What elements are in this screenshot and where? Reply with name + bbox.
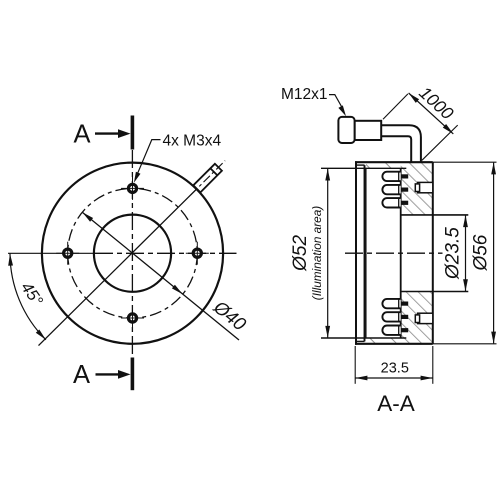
front plate inner line: [364, 165, 366, 341]
bolt hole left: [64, 249, 72, 257]
width 23.5 dim line: [355, 377, 433, 379]
LED bottom 2: [382, 312, 400, 321]
section mark bottom thick line: [131, 358, 135, 391]
section arrow bottom: [96, 373, 122, 375]
section mark top thick line: [131, 116, 135, 150]
svg-text:4x M3x4: 4x M3x4: [163, 132, 222, 149]
dia23.5 dim line: [465, 215, 467, 291]
arrow upper-left of dia40: [82, 212, 93, 222]
width 23.5 ext lines: [354, 346, 356, 384]
hatch strip bottom: [366, 338, 401, 344]
hatch strip top: [366, 162, 401, 168]
LED bottom 3: [382, 326, 400, 335]
svg-text:A: A: [73, 121, 90, 149]
svg-text:M12x1: M12x1: [281, 86, 328, 103]
tab end cap line: [210, 168, 217, 175]
bolt hole bottom: [128, 314, 136, 322]
LED bottom 1: [382, 299, 400, 308]
cable length dim line: [409, 93, 454, 134]
hatch block top: [401, 162, 433, 215]
svg-text:A: A: [73, 361, 90, 389]
cable length ext line 1: [383, 94, 408, 119]
label M12x1 leader: [329, 95, 343, 110]
illumination bottom line: [321, 337, 406, 339]
dia56 dim line: [493, 163, 495, 344]
section arrow top: [95, 132, 121, 134]
vertical centerline: [131, 150, 133, 357]
tab centerline dash-dot: [191, 161, 225, 195]
45deg diagonal dimension line (lower-left to upper-right): [39, 189, 197, 346]
svg-text:23.5: 23.5: [381, 360, 409, 376]
bore bottom line + ext: [401, 291, 469, 293]
section body bottom edge + ext: [355, 343, 433, 345]
window inner edge: [365, 168, 367, 338]
hatch block bottom: [401, 292, 433, 344]
bolt hole right: [193, 249, 201, 257]
connector recess bottom: [418, 313, 433, 323]
front view bore circle: [94, 215, 171, 292]
M12 connector body: [355, 121, 382, 140]
label 4x M3x4 leader: [136, 140, 160, 177]
arc arrow bottom: [36, 330, 46, 340]
svg-text:A-A: A-A: [377, 391, 415, 416]
dia52 dim line: [327, 169, 329, 338]
front view outer circle: [42, 163, 223, 344]
front plate step bottom: [357, 340, 365, 342]
front plate step top: [357, 164, 365, 166]
LED top 2: [382, 185, 400, 194]
section centerline: [345, 252, 443, 254]
arrow lower-right of dia40: [172, 285, 183, 295]
diameter 40 dimension line: [82, 212, 239, 340]
LED top 3: [382, 198, 400, 207]
45 degree angle arc: [10, 253, 46, 340]
svg-text:Ø52: Ø52: [290, 235, 311, 272]
front plate outer line: [355, 161, 357, 344]
connector recess top: [418, 182, 433, 192]
LED top 1: [382, 172, 400, 181]
connector tab on front view: [193, 164, 222, 193]
cable length ext line 2: [422, 125, 458, 160]
bolt hole top: [128, 184, 136, 192]
svg-text:Ø56: Ø56: [471, 234, 492, 271]
bolt circle (dash-dot): [68, 188, 198, 318]
section body right edge: [432, 162, 434, 344]
M12 connector nut: [338, 117, 354, 143]
svg-text:(Illumination area): (Illumination area): [310, 206, 324, 300]
illumination top line: [321, 167, 406, 169]
cable elbow: [381, 125, 421, 161]
bore top line + ext: [401, 214, 469, 216]
arc arrow top: [8, 254, 13, 266]
svg-text:Ø23.5: Ø23.5: [442, 227, 463, 280]
pcb line: [400, 168, 402, 337]
horizontal centerline: [8, 252, 95, 254]
section body top edge + ext: [355, 161, 433, 163]
